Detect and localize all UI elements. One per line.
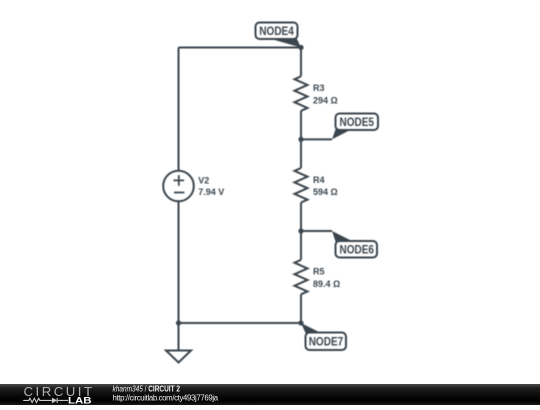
svg-text:NODE7: NODE7 — [309, 334, 344, 348]
svg-text:NODE4: NODE4 — [259, 24, 294, 38]
svg-text:89.4 Ω: 89.4 Ω — [313, 279, 340, 289]
svg-text:R4: R4 — [313, 175, 325, 185]
svg-text:R5: R5 — [313, 267, 325, 277]
svg-text:NODE6: NODE6 — [340, 242, 375, 256]
svg-text:http://circuitlab.com/cty493j7: http://circuitlab.com/cty493j7769ja — [113, 394, 219, 403]
svg-text:khanm345 / CIRCUIT 2: khanm345 / CIRCUIT 2 — [113, 384, 181, 393]
svg-text:NODE5: NODE5 — [340, 115, 375, 129]
svg-text:7.94 V: 7.94 V — [198, 187, 224, 197]
svg-text:294 Ω: 294 Ω — [313, 95, 338, 105]
svg-text:V2: V2 — [198, 176, 209, 186]
svg-text:LAB: LAB — [68, 396, 92, 405]
svg-text:R3: R3 — [313, 83, 325, 93]
svg-text:594 Ω: 594 Ω — [313, 187, 338, 197]
